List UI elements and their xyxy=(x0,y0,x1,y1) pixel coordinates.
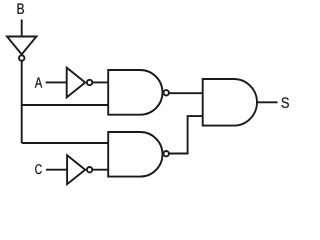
AND gate U3 xyxy=(203,79,257,126)
node B (input label) xyxy=(18,4,25,14)
wire C to inverter V3 xyxy=(46,169,67,171)
node C (input label) xyxy=(35,164,42,174)
inverter V2 (NOT gate on A) xyxy=(67,68,93,98)
NAND gate U2 xyxy=(108,132,169,177)
inverter V3 (NOT gate on C) xyxy=(67,155,92,184)
wire branch to NAND U1 lower input xyxy=(22,104,109,106)
wire NAND U1 output to AND U3 upper input xyxy=(169,92,203,94)
wire AND U3 output to S xyxy=(257,101,278,103)
wire A to inverter V2 xyxy=(46,81,67,83)
wire B to inverter V1 input xyxy=(21,20,23,37)
inverter V1 (NOT gate on B, pointing down) xyxy=(7,37,36,61)
wire inverter V1 output down to corner xyxy=(21,61,23,143)
node S (output label) xyxy=(281,97,289,108)
wire NAND U2 output up to AND U3 lower input xyxy=(169,116,203,153)
NAND gate U1 xyxy=(108,70,169,115)
wire inverter V3 output to NAND U2 lower input xyxy=(92,169,108,171)
wire inverter V2 output to NAND U1 upper input xyxy=(92,81,108,83)
node A (input label) xyxy=(35,77,42,87)
wire corner to NAND U2 upper input xyxy=(22,142,109,144)
